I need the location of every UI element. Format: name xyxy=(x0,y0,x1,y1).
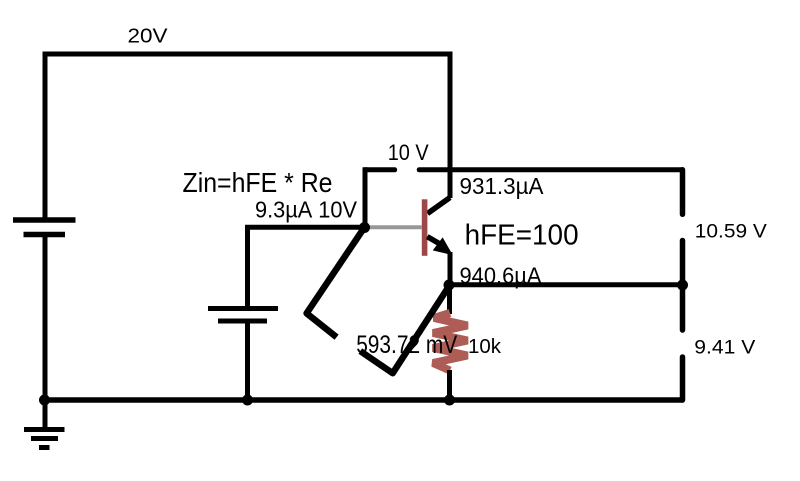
wire right branch lower segment (gap for 9.41 V) xyxy=(680,357,686,400)
wire emitter branch to right xyxy=(449,282,683,287)
transistor Q1 emitter arrowhead xyxy=(435,240,450,254)
node bottom resistor xyxy=(444,395,455,406)
transistor Q1 emitter lead diagonal xyxy=(427,237,440,244)
svg-text:10 V: 10 V xyxy=(388,140,429,165)
battery V2 10V top plate xyxy=(208,306,278,311)
svg-text:9.3µA 10V: 9.3µA 10V xyxy=(255,197,358,223)
node bottom left xyxy=(39,395,50,406)
transistor Q1 collector lead diagonal xyxy=(428,198,451,214)
svg-text:Zin=hFE * Re: Zin=hFE * Re xyxy=(183,167,333,198)
wire emitter to resistor xyxy=(447,285,452,314)
wire right branch upper segment (gap for 10.59 V) xyxy=(680,170,686,215)
ground xyxy=(43,400,48,428)
svg-text:9.41 V: 9.41 V xyxy=(694,337,755,358)
battery V2 10V bottom plate xyxy=(218,319,267,324)
svg-text:10.59 V: 10.59 V xyxy=(695,222,767,243)
transistor Q1 emitter lead vertical xyxy=(448,252,453,285)
wire collector node horizontal left segment (gap for 10 V) xyxy=(365,167,395,172)
svg-text:940.6µA: 940.6µA xyxy=(460,262,543,288)
wire from 10V gap left terminal down to base node xyxy=(363,167,368,227)
wire battery V2 negative to bottom rail xyxy=(245,321,250,400)
transistor Q1 base lead gray xyxy=(364,225,422,229)
resistor R1 10k zigzag xyxy=(433,313,468,371)
node emitter junction xyxy=(444,280,455,291)
wire battery V1 negative to bottom rail xyxy=(43,235,48,401)
wire base branch to battery V2 xyxy=(248,227,366,306)
wire bottom rail xyxy=(45,397,683,403)
node right branch junction xyxy=(677,280,688,291)
transistor Q1 base bar xyxy=(422,199,428,256)
battery V1 20V bottom plate xyxy=(24,232,66,238)
svg-text:593.72 mV: 593.72 mV xyxy=(356,331,457,359)
annotation check line at emitter xyxy=(360,285,449,373)
battery V1 20V top plate xyxy=(13,217,76,223)
wire collector node horizontal right segment to right branch xyxy=(419,167,682,172)
svg-text:10k: 10k xyxy=(468,336,502,358)
node base junction xyxy=(359,222,370,233)
wire right branch middle segment xyxy=(680,241,686,331)
svg-text:931.3µA: 931.3µA xyxy=(460,173,545,199)
node bottom battery V2 xyxy=(242,395,253,406)
wire resistor to bottom rail xyxy=(447,370,452,400)
svg-text:20V: 20V xyxy=(128,26,169,48)
wire top from battery V1 to collector branch xyxy=(45,54,450,218)
annotation check line at base xyxy=(307,228,364,337)
svg-text:hFE=100: hFE=100 xyxy=(465,219,579,251)
